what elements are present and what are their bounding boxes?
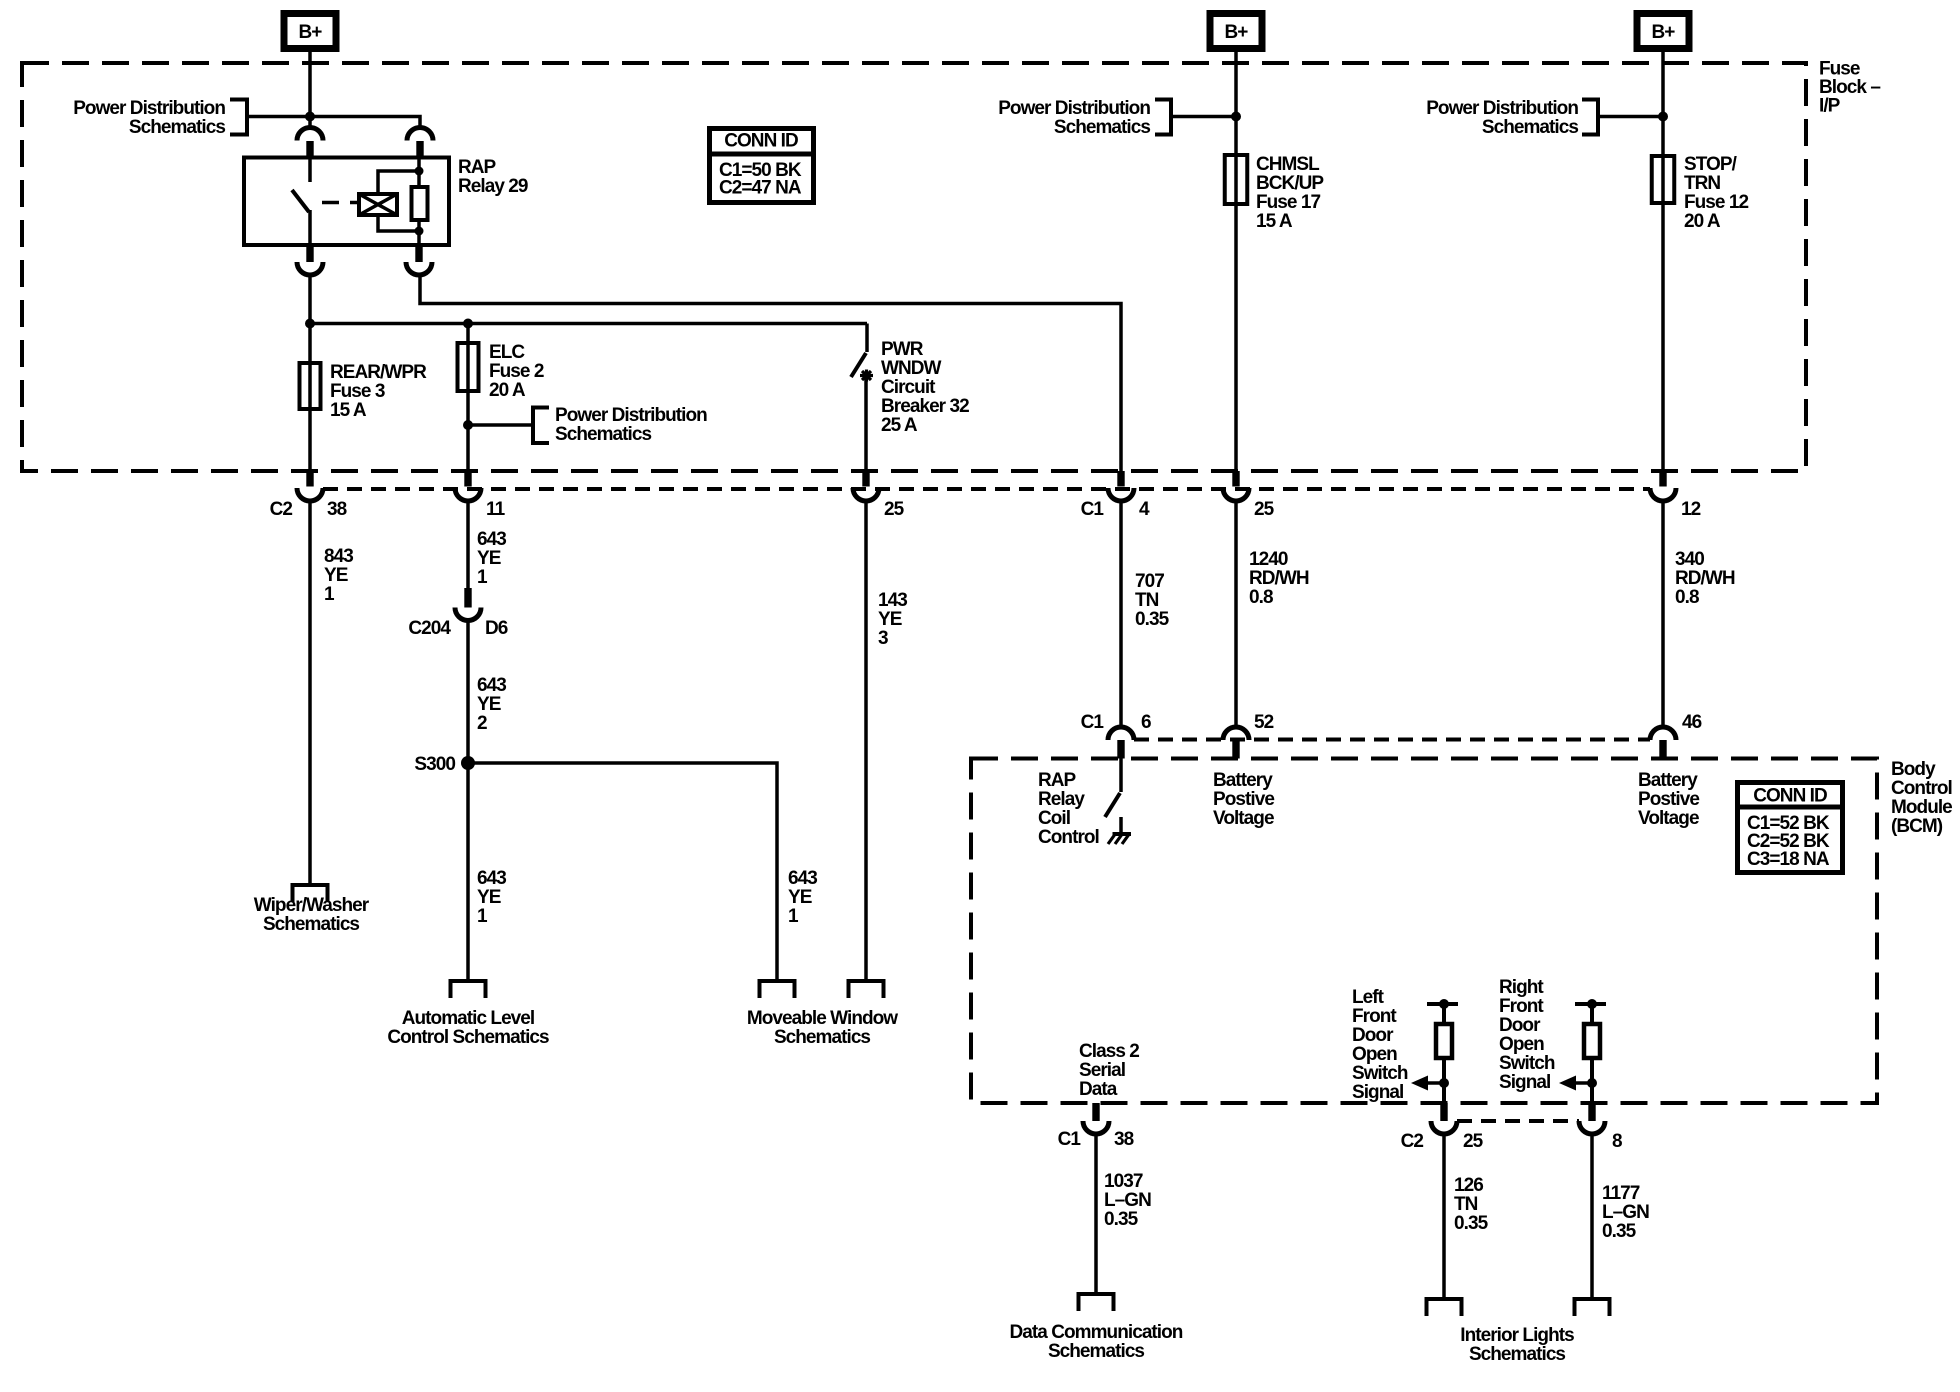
pin stub relay bottom-left: [306, 245, 313, 262]
wire PDS bracket to B+2: [1171, 115, 1236, 119]
wire 643 YE 2 to S300: [466, 621, 470, 764]
svg-text:20 A: 20 A: [1684, 211, 1721, 232]
svg-text:Fuse 3: Fuse 3: [330, 381, 385, 402]
svg-text:RAP: RAP: [1038, 770, 1077, 791]
svg-text:C2: C2: [270, 499, 293, 520]
terminal interior lights right: [1575, 1299, 1610, 1316]
connector arc 25 breaker: [853, 488, 879, 501]
connector arc relay pin top-left: [297, 128, 323, 141]
svg-text:RD/WH: RD/WH: [1249, 568, 1309, 589]
connector arc 52: [1223, 727, 1249, 740]
svg-text:Control: Control: [1891, 778, 1952, 799]
node splice S300: [461, 756, 475, 770]
connector arc relay pin top-right: [407, 128, 433, 141]
svg-text:Power Distribution: Power Distribution: [555, 405, 707, 426]
circuit breaker PWR WNDW 32 corner drop: [865, 324, 869, 353]
svg-text:YE: YE: [324, 565, 348, 586]
pin stub relay bottom-right: [415, 245, 422, 262]
label Data Communication Schematics: [1010, 1322, 1183, 1362]
svg-text:1037: 1037: [1104, 1171, 1143, 1192]
wire 143 YE 3 down to moveable window terminal: [864, 501, 868, 981]
relay actuator dashed link: [322, 201, 359, 205]
label C2 38: [270, 499, 347, 520]
svg-text:Wiper/Washer: Wiper/Washer: [254, 895, 370, 916]
svg-text:Postive: Postive: [1638, 789, 1699, 810]
BCM lower connector dashed line C2: [1457, 1119, 1579, 1123]
svg-text:Battery: Battery: [1213, 770, 1273, 791]
wire RAP coil control stub: [1119, 759, 1123, 793]
ground chassis hatches: [1113, 832, 1132, 836]
svg-text:C1: C1: [1081, 712, 1105, 733]
svg-text:25: 25: [884, 499, 905, 520]
label wire 843 YE 1: [324, 546, 353, 605]
connector arc C1-38: [1083, 1121, 1109, 1134]
label wire 643 YE 1 lower left: [477, 868, 506, 927]
resistor door switch right: [1584, 1024, 1600, 1058]
svg-text:Left: Left: [1352, 987, 1385, 1008]
node door switch right top: [1587, 999, 1597, 1009]
label C1 4: [1081, 499, 1150, 520]
label Power Distribution Schematics (left): [73, 98, 225, 138]
svg-text:1: 1: [477, 906, 488, 927]
pin stub 46: [1659, 740, 1666, 759]
wire 340 RD/WH down to BCM 46: [1661, 501, 1665, 727]
wire S300 branch right: [468, 763, 777, 981]
bracket PDS below ELC: [533, 408, 549, 444]
node junction B+3/PDS: [1658, 112, 1668, 122]
label Class 2 Serial Data: [1079, 1041, 1139, 1100]
svg-text:Module: Module: [1891, 797, 1952, 818]
svg-text:Power Distribution: Power Distribution: [73, 98, 225, 119]
svg-text:340: 340: [1675, 549, 1704, 570]
fuse block I/P dashed enclosure: [22, 63, 1806, 471]
label wire 1177 L-GN 0.35: [1602, 1183, 1649, 1242]
switch RAP coil control blade: [1105, 793, 1120, 817]
svg-text:L–GN: L–GN: [1104, 1190, 1151, 1211]
svg-text:15 A: 15 A: [1256, 211, 1293, 232]
svg-text:Front: Front: [1352, 1006, 1397, 1027]
svg-text:Serial: Serial: [1079, 1060, 1125, 1081]
wire door switch left: [1442, 1004, 1446, 1103]
pin stub C1-6: [1117, 740, 1124, 759]
svg-text:RAP: RAP: [458, 157, 497, 178]
connector arc relay pin bottom-right: [406, 262, 432, 275]
node coil bottom junction: [415, 227, 424, 236]
svg-text:Open: Open: [1499, 1034, 1544, 1055]
label wire 143 YE 3: [878, 590, 907, 649]
svg-text:643: 643: [477, 675, 506, 696]
svg-text:Fuse 2: Fuse 2: [489, 361, 544, 382]
svg-text:Door: Door: [1352, 1025, 1394, 1046]
svg-text:1: 1: [788, 906, 799, 927]
svg-text:Postive: Postive: [1213, 789, 1274, 810]
svg-text:Class 2: Class 2: [1079, 1041, 1139, 1062]
B+ terminal 1: [284, 14, 336, 49]
svg-text:1: 1: [477, 567, 488, 588]
svg-text:D6: D6: [485, 618, 508, 639]
svg-text:843: 843: [324, 546, 353, 567]
svg-text:2: 2: [477, 713, 487, 734]
svg-text:L–GN: L–GN: [1602, 1202, 1649, 1223]
pin stub C1-38: [1092, 1103, 1099, 1121]
terminal wiper/washer: [293, 885, 328, 902]
label Interior Lights Schematics: [1460, 1325, 1574, 1365]
fuse REAR/WPR Fuse 3: [300, 363, 321, 409]
label RAP Relay Coil Control: [1038, 770, 1099, 848]
connector arc C2-25: [1431, 1121, 1457, 1134]
svg-text:YE: YE: [878, 609, 902, 630]
wire B+3 down through STOP/TRN fuse: [1661, 52, 1665, 473]
wire PDS to B+1 wire: [247, 115, 310, 119]
svg-text:4: 4: [1139, 499, 1150, 520]
svg-text:CONN ID: CONN ID: [1753, 786, 1827, 807]
svg-text:Schematics: Schematics: [774, 1027, 870, 1048]
label Right Front Door Open Switch Signal: [1499, 977, 1555, 1093]
svg-text:11: 11: [486, 499, 506, 520]
arrow door switch right: [1576, 1081, 1592, 1085]
conn id table fuse block: [710, 129, 814, 203]
svg-text:C3=18 NA: C3=18 NA: [1747, 849, 1830, 870]
circuit breaker star contact: [860, 370, 873, 382]
fuse CHMSL BCK/UP Fuse 17: [1225, 155, 1248, 204]
label wire 340 RD/WH 0.8: [1675, 549, 1735, 608]
svg-text:C2: C2: [1401, 1131, 1424, 1152]
svg-text:Schematics: Schematics: [129, 117, 225, 138]
label Moveable Window Schematics: [747, 1008, 898, 1048]
pin stub connector C2-38: [306, 471, 313, 487]
svg-text:WNDW: WNDW: [881, 358, 942, 379]
BCM dashed enclosure: [971, 759, 1877, 1104]
fuse STOP/TRN Fuse 12: [1652, 156, 1675, 203]
svg-text:C2=47 NA: C2=47 NA: [719, 178, 802, 199]
wire to ground: [1119, 817, 1123, 833]
pin stub connector 25 chmsl: [1232, 471, 1239, 487]
node junction B+1/PDS: [305, 112, 315, 122]
conn id table BCM: [1738, 783, 1843, 873]
connector arc 11: [455, 488, 481, 501]
svg-text:143: 143: [878, 590, 907, 611]
svg-text:YE: YE: [477, 694, 501, 715]
wire 643 YE 1 to C204: [466, 501, 470, 588]
node junction ELC / PDS tap: [463, 420, 473, 430]
svg-text:0.8: 0.8: [1249, 587, 1273, 608]
resistor relay coil suppression: [412, 187, 428, 220]
label Power Distribution Schematics (STOP/TRN): [1426, 98, 1578, 138]
B+ terminal 2: [1210, 14, 1262, 49]
label wire 643 YE 1: [477, 529, 506, 588]
svg-text:Automatic Level: Automatic Level: [402, 1008, 535, 1029]
svg-text:1177: 1177: [1602, 1183, 1640, 1204]
svg-text:0.35: 0.35: [1135, 609, 1170, 630]
svg-text:0.35: 0.35: [1602, 1221, 1637, 1242]
label C2 25: [1401, 1131, 1484, 1152]
svg-text:Fuse 12: Fuse 12: [1684, 192, 1748, 213]
svg-text:Schematics: Schematics: [1482, 117, 1578, 138]
terminal interior lights left: [1427, 1299, 1462, 1316]
svg-text:643: 643: [477, 868, 506, 889]
wire door switch right: [1590, 1004, 1594, 1103]
svg-text:CHMSL: CHMSL: [1256, 154, 1320, 175]
svg-text:REAR/WPR: REAR/WPR: [330, 362, 427, 383]
svg-text:Switch: Switch: [1352, 1063, 1408, 1084]
pin stub C2-25: [1440, 1103, 1447, 1121]
svg-text:Control Schematics: Control Schematics: [387, 1027, 549, 1048]
svg-text:C1: C1: [1058, 1129, 1082, 1150]
terminal automatic level control: [451, 981, 486, 998]
wire ELC to PDS bracket: [468, 423, 533, 427]
wire 1177 L-GN down: [1590, 1134, 1594, 1299]
label REAR/WPR Fuse 3 15 A: [330, 362, 427, 421]
bracket PDS CHMSL: [1155, 100, 1171, 135]
svg-text:Door: Door: [1499, 1015, 1541, 1036]
resistor door switch left: [1436, 1024, 1452, 1058]
svg-text:TN: TN: [1135, 590, 1159, 611]
wire B+1 down to RAP relay: [308, 52, 312, 128]
svg-text:1240: 1240: [1249, 549, 1288, 570]
svg-text:Circuit: Circuit: [881, 377, 936, 398]
label Wiper/Washer Schematics: [254, 895, 370, 935]
label STOP/TRN Fuse 12 20 A: [1684, 154, 1748, 232]
connector arc 12: [1650, 488, 1676, 501]
label Power Distribution Schematics (ELC): [555, 405, 707, 445]
svg-text:C1: C1: [1081, 499, 1105, 520]
wire relay right pin vertical: [417, 158, 421, 246]
wire 126 TN down: [1442, 1134, 1446, 1299]
node junction left wire / horizontal feed: [305, 319, 315, 329]
bracket PDS left: [230, 100, 247, 135]
terminal moveable window right: [849, 981, 884, 998]
pin stub connector 25 breaker: [862, 471, 869, 487]
label CHMSL BCK/UP Fuse 17 15 A: [1256, 154, 1324, 232]
svg-text:B+: B+: [1652, 22, 1676, 43]
svg-text:Moveable Window: Moveable Window: [747, 1008, 898, 1029]
label wire 643 YE 1 lower right: [788, 868, 817, 927]
label RAP Relay 29: [458, 157, 528, 197]
svg-text:0.35: 0.35: [1104, 1209, 1139, 1230]
label Fuse Block I/P: [1819, 59, 1880, 117]
label wire 707 TN 0.35: [1135, 571, 1170, 630]
svg-text:ELC: ELC: [489, 342, 525, 363]
BCM input connector dotted line: [1134, 738, 1650, 742]
svg-text:Fuse 17: Fuse 17: [1256, 192, 1320, 213]
svg-text:Voltage: Voltage: [1213, 808, 1274, 829]
svg-text:B+: B+: [299, 22, 323, 43]
connector arc 46: [1650, 727, 1676, 740]
svg-text:BCK/UP: BCK/UP: [1256, 173, 1324, 194]
svg-text:Open: Open: [1352, 1044, 1397, 1065]
svg-text:Coil: Coil: [1038, 808, 1070, 829]
node door switch left arrow junction: [1439, 1078, 1449, 1088]
relay RAP Relay 29 box: [244, 158, 449, 246]
label Body Control Module (BCM): [1891, 759, 1952, 837]
label PWR WNDW Circuit Breaker 32 25 A: [881, 339, 969, 436]
svg-text:Schematics: Schematics: [1048, 1341, 1144, 1362]
svg-text:15 A: 15 A: [330, 400, 367, 421]
svg-text:RD/WH: RD/WH: [1675, 568, 1735, 589]
wire relay switch to bottom pin: [308, 210, 312, 245]
svg-text:Breaker 32: Breaker 32: [881, 396, 969, 417]
B+ terminal 3: [1637, 14, 1689, 49]
svg-text:643: 643: [788, 868, 817, 889]
svg-text:3: 3: [878, 628, 888, 649]
svg-text:20 A: 20 A: [489, 380, 526, 401]
svg-text:38: 38: [1114, 1129, 1134, 1150]
svg-text:707: 707: [1135, 571, 1164, 592]
label wire 126 TN 0.35: [1454, 1175, 1489, 1234]
svg-text:Schematics: Schematics: [263, 914, 359, 935]
pin stub relay top-right: [416, 141, 423, 158]
svg-text:Schematics: Schematics: [555, 424, 651, 445]
svg-text:YE: YE: [788, 887, 812, 908]
svg-text:Interior Lights: Interior Lights: [1460, 1325, 1574, 1346]
label wire 1240 RD/WH 0.8: [1249, 549, 1309, 608]
wire relay output to BCM C1-4: [420, 275, 1121, 473]
connector arc 25 chmsl: [1223, 488, 1249, 501]
svg-text:Power Distribution: Power Distribution: [998, 98, 1150, 119]
svg-text:YE: YE: [477, 548, 501, 569]
svg-text:Schematics: Schematics: [1054, 117, 1150, 138]
terminal data communication: [1079, 1294, 1114, 1311]
label wire 643 YE 2: [477, 675, 506, 734]
svg-text:1: 1: [324, 584, 335, 605]
wire 843 YE down to wiper terminal: [308, 501, 312, 885]
svg-text:Data Communication: Data Communication: [1010, 1322, 1183, 1343]
label C1 38: [1058, 1129, 1134, 1150]
node junction ELC tap: [463, 319, 473, 329]
connector arc C1-6: [1108, 727, 1134, 740]
svg-text:25: 25: [1463, 1131, 1484, 1152]
connector arc C204-D6: [455, 608, 481, 621]
label wire 1037 L-GN 0.35: [1104, 1171, 1151, 1230]
connector arc C2-38: [297, 488, 323, 501]
terminal moveable window left: [760, 981, 795, 998]
svg-text:46: 46: [1682, 712, 1702, 733]
svg-text:CONN ID: CONN ID: [724, 131, 798, 152]
bracket PDS STOP/TRN: [1582, 100, 1598, 135]
wire S300 down to auto level terminal: [466, 763, 470, 981]
connector arc C1-4: [1108, 488, 1134, 501]
wire horizontal feed to ELC and circuit breaker: [310, 322, 867, 326]
fuse block output connector dotted line: [323, 487, 1650, 491]
svg-text:Switch: Switch: [1499, 1053, 1555, 1074]
fuse ELC Fuse 2: [458, 343, 479, 391]
wire B+2 down through CHMSL fuse: [1234, 52, 1238, 473]
svg-text:Signal: Signal: [1499, 1072, 1550, 1093]
relay switch fixed contact: [308, 158, 312, 183]
svg-text:TRN: TRN: [1684, 173, 1720, 194]
label Left Front Door Open Switch Signal: [1352, 987, 1408, 1103]
wire coil top loop: [378, 171, 419, 194]
svg-text:8: 8: [1612, 1131, 1622, 1152]
svg-text:(BCM): (BCM): [1891, 816, 1943, 837]
pin stub connector C1-4: [1117, 471, 1124, 487]
svg-text:C204: C204: [408, 618, 451, 639]
label Power Distribution Schematics (CHMSL): [998, 98, 1150, 138]
pin stub connector 11: [464, 471, 471, 487]
svg-text:Signal: Signal: [1352, 1082, 1403, 1103]
node junction B+2/PDS: [1231, 112, 1241, 122]
wire relay left pin down to REAR/WPR fuse and connector 38: [308, 275, 312, 473]
svg-text:0.35: 0.35: [1454, 1213, 1489, 1234]
wire junction to relay right pin: [310, 117, 420, 128]
wire ELC branch down: [466, 324, 470, 473]
svg-text:Power Distribution: Power Distribution: [1426, 98, 1578, 119]
svg-text:TN: TN: [1454, 1194, 1478, 1215]
label Automatic Level Control Schematics: [387, 1008, 549, 1048]
svg-text:I/P: I/P: [1819, 96, 1841, 117]
svg-text:Body: Body: [1891, 759, 1936, 780]
svg-text:Battery: Battery: [1638, 770, 1698, 791]
pin stub 8: [1588, 1103, 1595, 1121]
connector arc relay pin bottom-left: [297, 262, 323, 275]
relay coil X: [359, 194, 397, 215]
node door switch left top: [1439, 999, 1449, 1009]
svg-text:38: 38: [327, 499, 347, 520]
svg-text:126: 126: [1454, 1175, 1483, 1196]
svg-text:12: 12: [1681, 499, 1701, 520]
svg-text:25: 25: [1254, 499, 1275, 520]
wire PDS bracket to B+3: [1598, 115, 1663, 119]
pin stub 52: [1232, 740, 1239, 759]
svg-text:S300: S300: [414, 754, 455, 775]
label Battery Postive Voltage (52): [1213, 770, 1274, 829]
svg-text:643: 643: [477, 529, 506, 550]
svg-text:B+: B+: [1225, 22, 1249, 43]
label ELC Fuse 2 20 A: [489, 342, 544, 401]
wire 1240 RD/WH down to BCM 52: [1234, 501, 1238, 727]
label Battery Postive Voltage (46): [1638, 770, 1699, 829]
wire coil bottom loop: [378, 215, 419, 231]
svg-text:25 A: 25 A: [881, 415, 918, 436]
pin stub connector 12: [1659, 471, 1666, 487]
relay switch blade: [292, 190, 309, 212]
svg-text:YE: YE: [477, 887, 501, 908]
svg-text:52: 52: [1254, 712, 1274, 733]
door switch left top bar: [1427, 1002, 1458, 1006]
svg-text:Voltage: Voltage: [1638, 808, 1699, 829]
svg-text:6: 6: [1141, 712, 1151, 733]
wire 1037 L-GN down: [1094, 1134, 1098, 1294]
svg-text:Front: Front: [1499, 996, 1544, 1017]
wire 707 TN down to BCM C1-6: [1119, 501, 1123, 727]
svg-text:STOP/: STOP/: [1684, 154, 1738, 175]
svg-text:Data: Data: [1079, 1079, 1118, 1100]
connector arc 8: [1579, 1121, 1605, 1134]
door switch right top bar: [1575, 1002, 1606, 1006]
node door switch right arrow junction: [1587, 1078, 1597, 1088]
arrow door switch left: [1428, 1081, 1444, 1085]
svg-text:Control: Control: [1038, 827, 1099, 848]
wire breaker down to connector 25: [864, 377, 868, 473]
svg-text:0.8: 0.8: [1675, 587, 1699, 608]
pin stub connector C204-D6: [464, 588, 471, 608]
label C1 6: [1081, 712, 1151, 733]
svg-text:Relay: Relay: [1038, 789, 1085, 810]
svg-text:Schematics: Schematics: [1469, 1344, 1565, 1365]
svg-text:Right: Right: [1499, 977, 1544, 998]
node coil top junction: [415, 167, 424, 176]
svg-text:Relay 29: Relay 29: [458, 176, 528, 197]
svg-text:PWR: PWR: [881, 339, 924, 360]
label C204 D6: [408, 618, 507, 639]
circuit breaker blade: [851, 353, 866, 377]
relay coil box: [359, 194, 397, 215]
pin stub relay top-left: [306, 141, 313, 158]
